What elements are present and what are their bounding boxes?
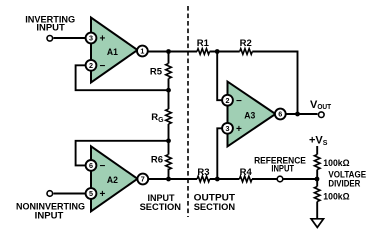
svg-text:−: − [100, 61, 106, 72]
svg-text:1: 1 [140, 47, 144, 56]
wire A1 output to R1 [142, 51, 197, 53]
wire R6 to A2 output node [168, 169, 170, 180]
svg-text:INPUT: INPUT [35, 210, 64, 221]
svg-text:7: 7 [141, 175, 145, 184]
svg-text:R1: R1 [197, 38, 210, 49]
pin 1 (A1 out) [137, 46, 148, 57]
svg-text:+: + [100, 34, 106, 45]
node junction R3-R4 [215, 177, 220, 182]
wire +Vs to divider [316, 146, 318, 155]
svg-text:3: 3 [89, 34, 93, 43]
svg-text:3: 3 [226, 124, 230, 133]
dashed section divider line [187, 6, 189, 217]
terminal Vout [319, 112, 325, 118]
node junction R1-R2 [215, 49, 220, 54]
svg-text:R3: R3 [197, 167, 209, 178]
wire R3 to R4 [210, 178, 240, 180]
wire R1 to R2 [210, 51, 240, 53]
wire A1 feedback pin2 to R5/RG node [76, 65, 169, 90]
resistor RG [166, 109, 172, 124]
op-amp A1 [91, 18, 138, 83]
svg-text:A2: A2 [107, 175, 118, 186]
pin 2 (A3 -) [222, 95, 233, 106]
node junction voltage divider [315, 177, 320, 182]
svg-text:100kΩ: 100kΩ [323, 192, 350, 203]
pin 6 (A3 out) [275, 109, 286, 120]
svg-text:A1: A1 [107, 47, 119, 58]
svg-text:R6: R6 [151, 154, 163, 165]
svg-text:R2: R2 [240, 38, 252, 49]
op-amp A3 [228, 82, 276, 147]
svg-text:+: + [100, 189, 106, 200]
svg-text:INPUT: INPUT [271, 163, 294, 174]
wire lower 100k to ground [316, 202, 318, 219]
wire inverting input to A1 pin3 [54, 37, 92, 39]
wire A2 feedback pin6 to RG/R6 node [76, 141, 169, 166]
svg-text:5: 5 [89, 189, 93, 198]
node junction A3 output / R2 [295, 112, 300, 117]
op-amp A2 [91, 146, 138, 211]
svg-text:6: 6 [278, 110, 282, 119]
wire A2 output to R3 [143, 178, 198, 180]
resistor R2 [240, 49, 253, 55]
resistor R4 [239, 176, 252, 182]
pin 7 (A2 out) [137, 174, 148, 185]
wire RG to R6 [168, 124, 170, 155]
svg-text:6: 6 [89, 161, 93, 170]
wire R4 to voltage divider node [252, 178, 317, 180]
pin 5 (A2 +) [86, 188, 97, 199]
wire R1/R2 node down to A3 pin2 [217, 52, 227, 101]
terminal reference input [277, 176, 283, 182]
svg-text:R4: R4 [240, 167, 253, 178]
svg-text:2: 2 [226, 96, 230, 105]
node junction R5/RG/A1 feedback [166, 88, 171, 93]
pin 3 (A1 +) [86, 33, 97, 44]
terminal noninverting input [47, 191, 53, 197]
ground [311, 219, 323, 228]
wire A3 output to Vout [279, 113, 318, 115]
terminal inverting input [47, 36, 53, 42]
resistor 100k upper [314, 155, 320, 170]
node junction A1 output / R5 [166, 49, 171, 54]
wire R5 to RG [168, 79, 170, 110]
svg-text:+: + [236, 124, 242, 135]
svg-text:2: 2 [89, 61, 93, 70]
svg-text:SECTION: SECTION [140, 202, 182, 213]
resistor R6 [166, 155, 172, 170]
wire R3/R4 node up to A3 pin3 [217, 128, 227, 179]
pin 3 (A3 +) [222, 123, 233, 134]
svg-text:A3: A3 [244, 111, 255, 122]
svg-text:INPUT: INPUT [36, 23, 65, 34]
pin 2 (A1 -) [86, 60, 97, 71]
svg-text:R5: R5 [150, 67, 163, 78]
svg-text:DIVIDER: DIVIDER [328, 179, 360, 190]
resistor 100k lower [314, 187, 320, 202]
node junction A2 output / R6 [166, 177, 171, 182]
wire upper 100k to node [316, 170, 318, 187]
svg-text:SECTION: SECTION [194, 202, 236, 213]
node junction RG/R6/A2 feedback [166, 138, 171, 143]
pin 6 (A2 -) [86, 160, 97, 171]
wire R2 to output node [252, 52, 297, 115]
resistor R1 [197, 49, 210, 55]
svg-text:−: − [236, 96, 242, 107]
svg-text:100kΩ: 100kΩ [323, 158, 350, 169]
resistor R3 [197, 176, 210, 182]
wire noninverting input to A2 pin5 [54, 193, 92, 195]
resistor R5 [168, 52, 170, 64]
svg-text:−: − [100, 161, 106, 172]
